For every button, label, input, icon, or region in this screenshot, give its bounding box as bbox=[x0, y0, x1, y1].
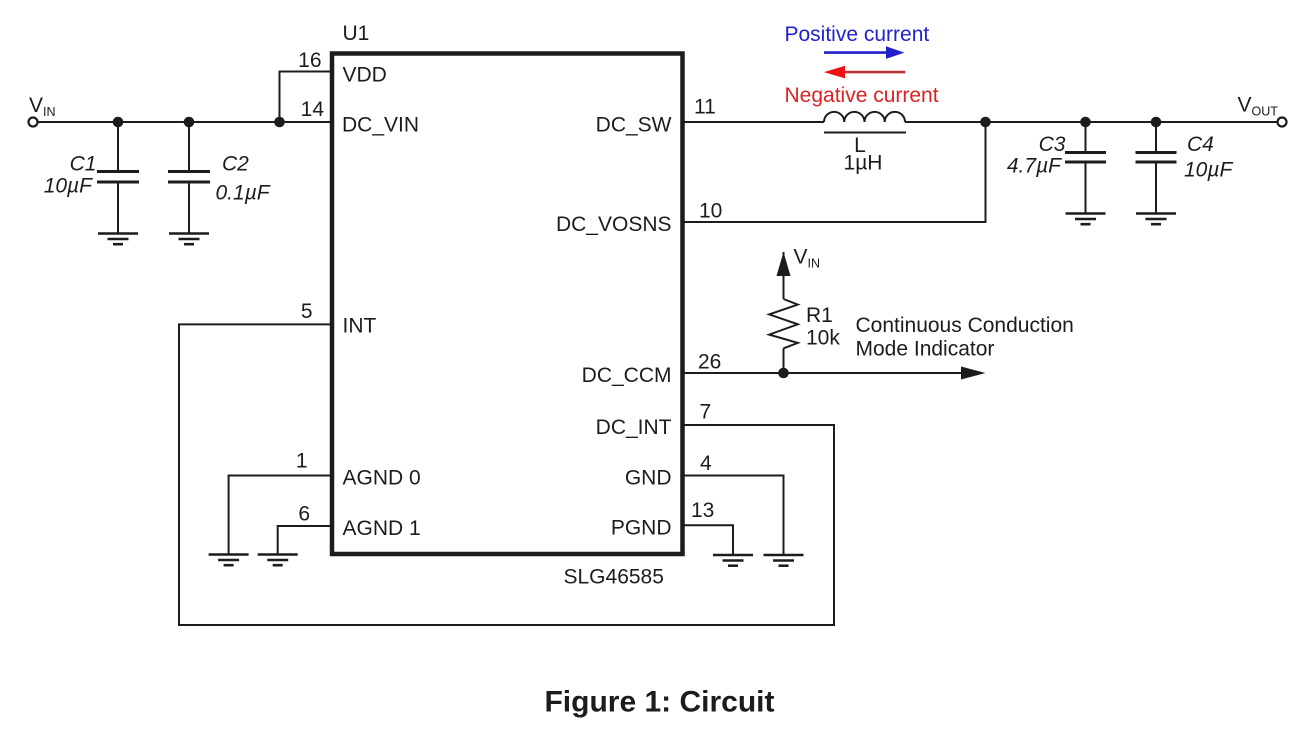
svg-text:C3: C3 bbox=[1039, 133, 1066, 156]
ground below C3 bbox=[1066, 214, 1106, 225]
wire inductor to VOUT bbox=[905, 121, 1278, 123]
wire DC_SW pin 11 to inductor bbox=[684, 121, 824, 123]
U1 reference label bbox=[343, 22, 370, 45]
svg-text:C2: C2 bbox=[222, 153, 249, 176]
svg-text:16: 16 bbox=[298, 49, 321, 72]
C4 value 10uF bbox=[1184, 159, 1233, 182]
svg-text:5: 5 bbox=[301, 300, 313, 323]
node VIN pullup arrow bbox=[777, 252, 791, 276]
svg-text:4.7µF: 4.7µF bbox=[1007, 154, 1062, 177]
wire DC_CCM pin 26 with output arrow bbox=[684, 367, 986, 380]
R1 label bbox=[806, 304, 833, 327]
svg-text:Positive current: Positive current bbox=[785, 23, 930, 46]
svg-text:C4: C4 bbox=[1187, 133, 1214, 156]
pin 5 number bbox=[301, 300, 313, 323]
IC part number SLG46585 bbox=[564, 566, 664, 589]
R1 value 10k bbox=[806, 327, 840, 350]
wire PGND pin 13 to ground bbox=[684, 525, 733, 554]
svg-text:GND: GND bbox=[625, 467, 672, 490]
ground at PGND pin 13 bbox=[713, 555, 753, 566]
C4 label bbox=[1187, 133, 1214, 156]
pin 16 name VDD bbox=[343, 64, 387, 87]
pin 10 number bbox=[699, 200, 722, 223]
pin 10 name DC_VOSNS bbox=[556, 213, 672, 236]
pin 6 number bbox=[298, 503, 310, 526]
svg-text:Continuous Conduction: Continuous Conduction bbox=[856, 314, 1074, 337]
inductor L bbox=[824, 112, 906, 133]
ground below C4 bbox=[1136, 214, 1176, 225]
svg-text:14: 14 bbox=[301, 98, 325, 121]
junction dot at C1 bbox=[113, 117, 124, 128]
VIN label at R1 bbox=[794, 246, 821, 271]
svg-text:VDD: VDD bbox=[343, 64, 387, 87]
ground at GND pin 4 bbox=[764, 555, 804, 566]
figure caption bbox=[544, 686, 774, 719]
svg-text:DC_VOSNS: DC_VOSNS bbox=[556, 213, 672, 236]
C1 value 10uF bbox=[44, 174, 93, 197]
pin 11 name DC_SW bbox=[596, 114, 672, 137]
wire GND pin 4 to ground bbox=[684, 476, 784, 555]
capacitor C2 bbox=[168, 122, 210, 234]
pin 4 number bbox=[700, 452, 712, 475]
svg-text:0.1µF: 0.1µF bbox=[216, 182, 271, 205]
junction dot at R1 / DC_CCM bbox=[778, 368, 789, 379]
ground below C1 bbox=[98, 234, 138, 245]
svg-text:U1: U1 bbox=[343, 22, 370, 45]
svg-text:6: 6 bbox=[298, 503, 310, 526]
svg-text:INT: INT bbox=[343, 315, 377, 338]
pin 4 name GND bbox=[625, 467, 672, 490]
wire AGND 1 pin 6 to ground bbox=[278, 526, 330, 554]
C3 value 4.7uF bbox=[1007, 154, 1062, 177]
ground below C2 bbox=[169, 234, 209, 245]
C2 value 0.1uF bbox=[216, 182, 271, 205]
wire AGND 0 pin 1 to ground bbox=[229, 476, 330, 555]
svg-text:26: 26 bbox=[698, 351, 721, 374]
Continuous Conduction label line 1 bbox=[856, 314, 1074, 337]
svg-text:10k: 10k bbox=[806, 327, 840, 350]
negative current arrow bbox=[824, 66, 905, 79]
svg-text:DC_VIN: DC_VIN bbox=[342, 114, 419, 137]
positive current arrow bbox=[824, 46, 905, 59]
svg-text:Figure 1: Circuit: Figure 1: Circuit bbox=[544, 686, 774, 719]
svg-text:1: 1 bbox=[296, 450, 308, 473]
svg-text:DC_CCM: DC_CCM bbox=[582, 364, 672, 387]
junction dot at C4 bbox=[1151, 117, 1162, 128]
pin 5 name INT bbox=[343, 315, 377, 338]
op-amp U1 body (IC SLG46585) bbox=[332, 54, 683, 555]
svg-text:7: 7 bbox=[700, 401, 712, 424]
svg-text:Negative current: Negative current bbox=[785, 84, 939, 107]
C3 label bbox=[1039, 133, 1066, 156]
svg-text:11: 11 bbox=[694, 96, 716, 119]
capacitor C3 bbox=[1065, 122, 1106, 214]
svg-text:PGND: PGND bbox=[611, 517, 672, 540]
capacitor C4 bbox=[1136, 122, 1177, 214]
svg-text:DC_INT: DC_INT bbox=[596, 416, 672, 439]
junction dot at VOSNS sense point bbox=[980, 117, 991, 128]
node VIN terminal bbox=[29, 118, 38, 127]
junction dot at C2 bbox=[184, 117, 195, 128]
L value 1uH bbox=[844, 152, 883, 175]
pin 16 number bbox=[298, 49, 321, 72]
Positive current label bbox=[785, 23, 930, 46]
svg-text:SLG46585: SLG46585 bbox=[564, 566, 664, 589]
C2 label bbox=[222, 153, 249, 176]
pin 11 number bbox=[694, 96, 716, 119]
Mode Indicator label line 2 bbox=[856, 338, 995, 361]
node VOUT terminal bbox=[1278, 118, 1287, 127]
pin 14 number bbox=[301, 98, 325, 121]
pin 6 name AGND 1 bbox=[343, 517, 421, 540]
ground at AGND 0 bbox=[209, 555, 249, 566]
pin 26 name DC_CCM bbox=[582, 364, 672, 387]
L label bbox=[854, 134, 866, 157]
pin 14 name DC_VIN bbox=[342, 114, 419, 137]
wire VDD branch to pin 16 bbox=[280, 72, 331, 123]
pin 1 name AGND 0 bbox=[343, 467, 421, 490]
svg-text:10µF: 10µF bbox=[44, 174, 93, 197]
ground at AGND 1 bbox=[258, 555, 298, 566]
junction dot at C3 bbox=[1080, 117, 1091, 128]
pin 13 name PGND bbox=[611, 517, 672, 540]
junction dot at VDD branch bbox=[274, 117, 285, 128]
pin 7 name DC_INT bbox=[596, 416, 672, 439]
C1 label bbox=[70, 153, 97, 176]
svg-text:AGND 0: AGND 0 bbox=[343, 467, 421, 490]
svg-text:Mode Indicator: Mode Indicator bbox=[856, 338, 995, 361]
Negative current label bbox=[785, 84, 939, 107]
svg-text:DC_SW: DC_SW bbox=[596, 114, 672, 137]
wire DC_VOSNS pin 10 bbox=[684, 122, 986, 222]
pin 13 number bbox=[691, 499, 714, 522]
svg-text:4: 4 bbox=[700, 452, 712, 475]
svg-text:AGND 1: AGND 1 bbox=[343, 517, 421, 540]
pin 7 number bbox=[700, 401, 712, 424]
wire DC_INT pin 7 feedback loop to INT pin 5 bbox=[179, 324, 834, 625]
pin 1 number bbox=[296, 450, 308, 473]
svg-text:10µF: 10µF bbox=[1184, 159, 1233, 182]
svg-text:C1: C1 bbox=[70, 153, 97, 176]
svg-text:10: 10 bbox=[699, 200, 722, 223]
capacitor C1 bbox=[97, 122, 139, 234]
pin 26 number bbox=[698, 351, 721, 374]
wire VIN to DC_VIN pin 14 bbox=[38, 121, 331, 123]
svg-text:13: 13 bbox=[691, 499, 714, 522]
node VOUT label bbox=[1238, 94, 1279, 119]
svg-text:R1: R1 bbox=[806, 304, 833, 327]
node VIN label bbox=[29, 94, 56, 119]
svg-text:1µH: 1µH bbox=[844, 152, 883, 175]
resistor R1 bbox=[769, 276, 798, 373]
